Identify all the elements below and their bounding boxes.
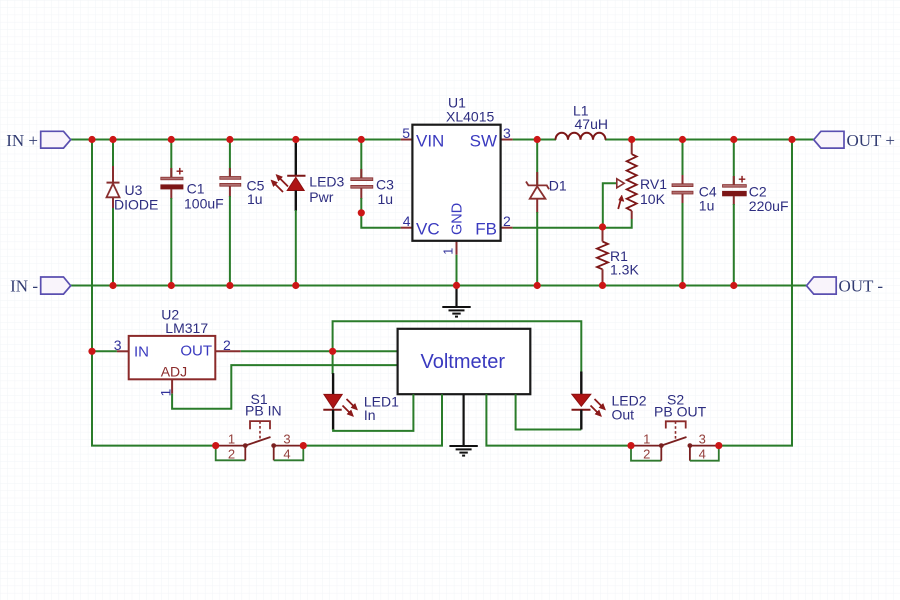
inductor L1 [556, 103, 608, 140]
svg-text:In: In [364, 407, 376, 423]
wire U2 ADJ to voltmeter sense [172, 365, 398, 409]
junction dots S1 [212, 442, 307, 449]
wire top rail IN+ left section [71, 139, 401, 141]
svg-text:3: 3 [283, 432, 290, 447]
svg-text:1u: 1u [699, 198, 715, 214]
svg-text:C1: C1 [187, 181, 205, 197]
wire voltmeter to S2 line [486, 394, 631, 445]
ground under U1 [442, 285, 470, 316]
capacitor C3 [351, 141, 394, 213]
svg-text:PB OUT: PB OUT [654, 404, 707, 420]
junction dot FB-R1-RV1 node [599, 223, 606, 230]
zener diode D1 [526, 140, 567, 286]
svg-text:FB: FB [475, 220, 497, 239]
svg-text:4: 4 [699, 447, 706, 462]
potentiometer RV1 [603, 141, 667, 228]
svg-text:RV1: RV1 [640, 176, 667, 192]
LED1 In [323, 373, 399, 430]
svg-text:5: 5 [402, 125, 410, 141]
svg-text:Voltmeter: Voltmeter [421, 351, 506, 373]
svg-text:SW: SW [470, 132, 497, 151]
junction dots S2 [627, 442, 722, 449]
svg-text:VIN: VIN [416, 132, 444, 151]
svg-text:3: 3 [699, 432, 706, 447]
svg-text:1u: 1u [378, 191, 394, 207]
capacitor C5 [220, 141, 265, 286]
svg-text:PB IN: PB IN [245, 403, 282, 419]
svg-text:DIODE: DIODE [114, 197, 158, 213]
wire LED top feed [333, 321, 582, 372]
junction dots bottom rail [109, 282, 737, 289]
LED3 Pwr [271, 141, 345, 286]
svg-text:1.3K: 1.3K [610, 262, 639, 278]
svg-text:1: 1 [228, 432, 235, 447]
junction dot C3-VC node [358, 209, 365, 216]
svg-text:100uF: 100uF [184, 196, 224, 212]
svg-text:LED3: LED3 [309, 174, 344, 190]
wire U2 OUT to voltmeter [241, 350, 398, 352]
ground under voltmeter [449, 446, 477, 456]
wire voltmeter to LED2 [516, 394, 582, 429]
svg-text:ADJ: ADJ [161, 364, 187, 380]
svg-text:LM317: LM317 [165, 320, 208, 336]
svg-text:10K: 10K [640, 191, 666, 207]
wire top rail right section SW to OUT+ [513, 139, 814, 141]
svg-text:GND: GND [450, 203, 466, 235]
svg-text:3: 3 [503, 125, 511, 141]
svg-text:47uH: 47uH [575, 116, 608, 132]
wire S1 to voltmeter power [303, 394, 442, 445]
svg-text:XL4015: XL4015 [446, 109, 494, 125]
svg-text:VC: VC [416, 220, 440, 239]
wire IN- bottom rail [71, 285, 807, 287]
port OUT- [807, 277, 884, 296]
svg-text:OUT +: OUT + [847, 131, 895, 150]
svg-text:OUT: OUT [180, 343, 212, 360]
junction dot U2 IN branch [88, 348, 95, 355]
svg-text:+: + [176, 164, 184, 179]
switch S2 PB OUT [631, 392, 719, 462]
svg-text:4: 4 [403, 213, 411, 229]
svg-text:IN -: IN - [10, 277, 38, 296]
svg-text:2: 2 [503, 213, 511, 229]
wire LED1 to voltmeter [333, 394, 413, 431]
svg-text:1u: 1u [247, 191, 263, 207]
wire voltmeter gnd stem [463, 394, 465, 446]
wire C3 to VC [361, 213, 401, 228]
regulator U2 LM317 [114, 307, 241, 397]
svg-text:OUT -: OUT - [839, 277, 884, 296]
svg-text:4: 4 [283, 447, 290, 462]
svg-text:2: 2 [223, 337, 231, 353]
port IN- [10, 277, 71, 296]
svg-text:3: 3 [114, 337, 122, 353]
svg-text:IN: IN [134, 344, 149, 361]
svg-text:1: 1 [441, 248, 455, 255]
junction dot LED feed node [329, 348, 336, 355]
svg-text:220uF: 220uF [749, 198, 789, 214]
wire U1 GND to rail [456, 255, 458, 286]
svg-text:IN +: IN + [6, 131, 38, 150]
svg-text:D1: D1 [549, 178, 567, 194]
capacitor C4 [672, 141, 717, 286]
svg-text:1: 1 [643, 432, 650, 447]
svg-text:Pwr: Pwr [309, 189, 333, 205]
capacitor C1 [161, 141, 224, 286]
junction dots top rail [88, 136, 795, 143]
svg-text:Out: Out [612, 407, 635, 423]
port OUT+ [814, 131, 895, 150]
port IN+ [6, 131, 70, 150]
capacitor C2 [723, 141, 789, 286]
wire to LED1 anode [332, 351, 334, 374]
switch S1 PB IN [216, 391, 304, 462]
wire U2 IN connection [92, 350, 117, 352]
LED2 Out [572, 372, 647, 430]
svg-text:2: 2 [643, 447, 650, 462]
voltmeter box [398, 329, 531, 394]
svg-text:2: 2 [228, 447, 235, 462]
wire OUT+ to S2 branch [719, 140, 792, 446]
wire left branch IN+ to U2-IN and S1 [92, 140, 216, 446]
resistor R1 [597, 227, 639, 285]
op-amp U1 XL4015 [401, 95, 513, 255]
diode U3 [107, 141, 159, 286]
wire FB line [513, 219, 632, 228]
